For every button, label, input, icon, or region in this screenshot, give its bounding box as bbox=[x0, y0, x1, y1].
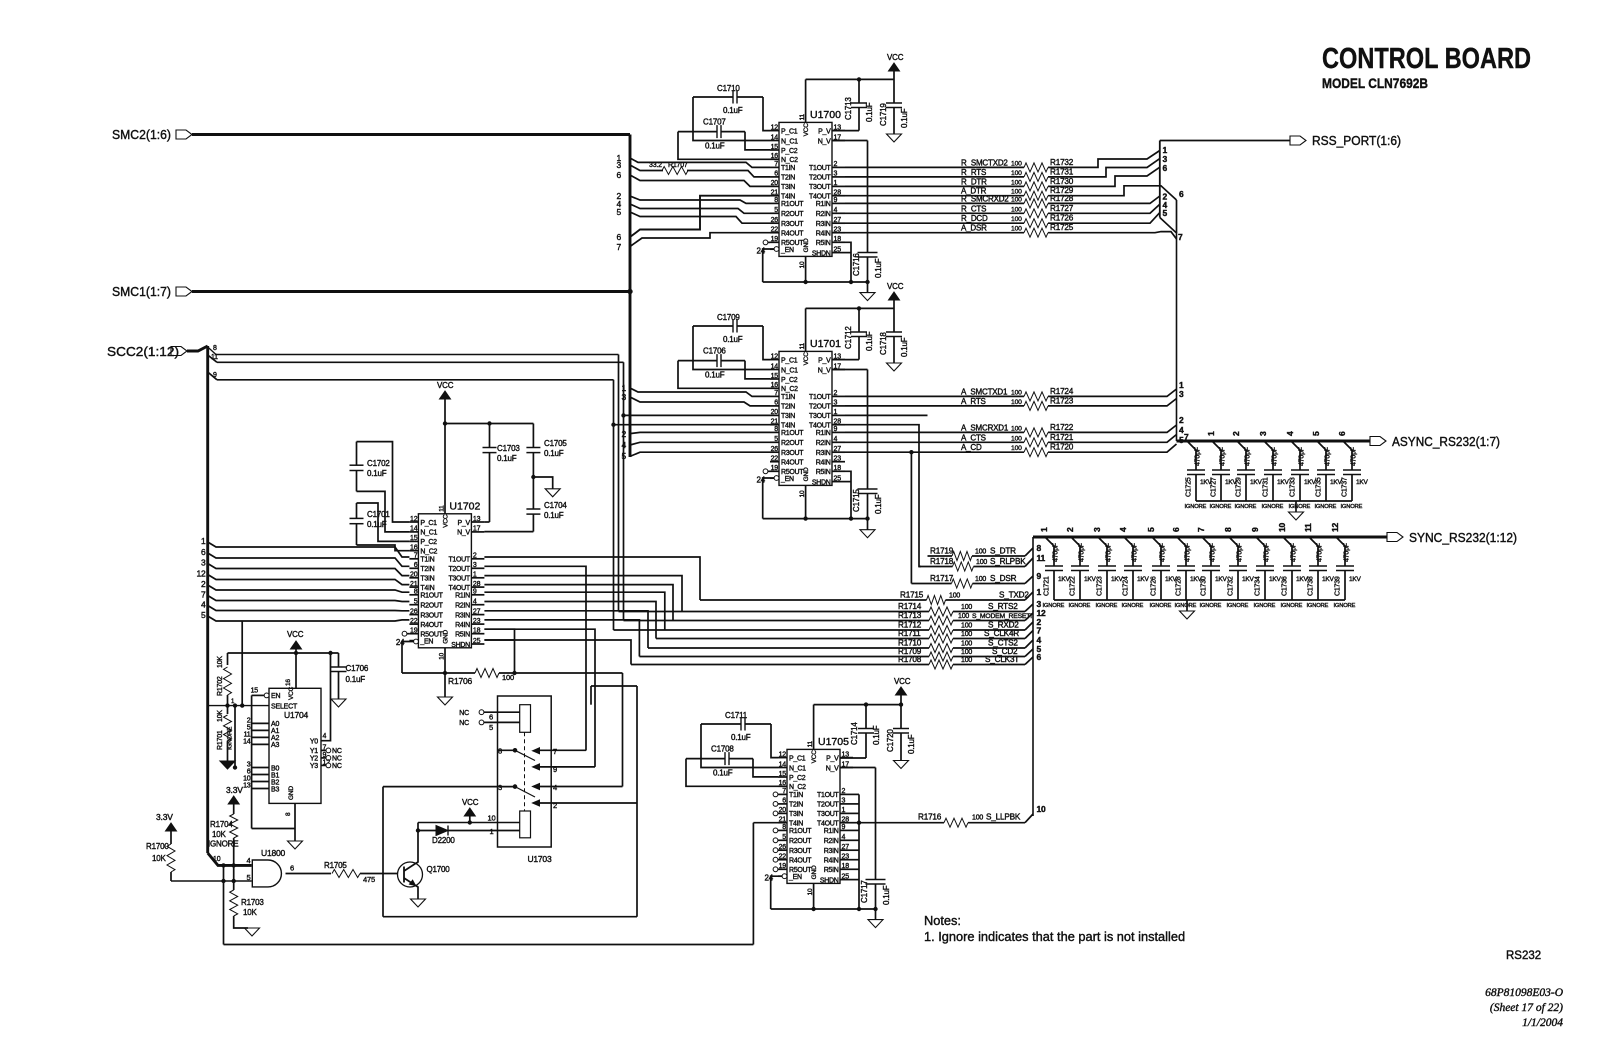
svg-text:0.1uF: 0.1uF bbox=[723, 106, 743, 115]
svg-text:6: 6 bbox=[489, 713, 493, 722]
svg-text:S_RLPBK: S_RLPBK bbox=[990, 557, 1026, 566]
svg-text:A_CD: A_CD bbox=[961, 443, 982, 452]
svg-text:11: 11 bbox=[1303, 523, 1313, 532]
wire SYNC connector stem bbox=[1032, 537, 1034, 816]
svg-text:470pF: 470pF bbox=[1344, 543, 1351, 562]
svg-text:15: 15 bbox=[771, 144, 779, 151]
svg-text:7: 7 bbox=[616, 242, 621, 252]
svg-text:N_V: N_V bbox=[818, 138, 831, 145]
svg-text:0.1uF: 0.1uF bbox=[865, 331, 874, 351]
svg-text:470pF: 470pF bbox=[1245, 447, 1252, 466]
ground below U1702 bbox=[444, 673, 446, 697]
svg-text:9: 9 bbox=[842, 824, 846, 831]
wire U1705 N_V bbox=[840, 767, 876, 769]
svg-text:T4OUT: T4OUT bbox=[809, 194, 831, 201]
wire SCC2 pin 8 net bbox=[216, 354, 619, 356]
wire net S_LLPBK bbox=[859, 822, 944, 824]
svg-text:9: 9 bbox=[834, 197, 838, 204]
svg-text:7: 7 bbox=[1196, 527, 1206, 532]
svg-text:12: 12 bbox=[779, 751, 787, 758]
svg-text:5: 5 bbox=[782, 834, 786, 841]
wire left bottom rail bbox=[223, 865, 225, 944]
svg-text:R1IN: R1IN bbox=[816, 201, 831, 208]
wire RSS to ASYNC bus vertical bbox=[1160, 218, 1177, 442]
svg-text:2: 2 bbox=[621, 429, 626, 439]
svg-text:P_V: P_V bbox=[818, 357, 831, 364]
svg-text:10: 10 bbox=[488, 814, 496, 823]
capacitor C1725 470pF bbox=[1187, 441, 1196, 470]
svg-text:0.1uF: 0.1uF bbox=[497, 454, 517, 463]
svg-text:7: 7 bbox=[1184, 432, 1189, 442]
resistor R1729 100 bbox=[1024, 191, 1048, 200]
svg-text:0.1uF: 0.1uF bbox=[346, 675, 366, 684]
svg-text:R_SMCRXD2: R_SMCRXD2 bbox=[961, 194, 1009, 203]
svg-text:10K: 10K bbox=[217, 710, 224, 722]
svg-text:16: 16 bbox=[410, 545, 418, 552]
svg-text:T4IN: T4IN bbox=[789, 821, 803, 828]
svg-text:R1713: R1713 bbox=[898, 611, 922, 620]
wire U1702 R1IN staircase bbox=[484, 592, 664, 630]
svg-text:IGNORE: IGNORE bbox=[1262, 504, 1284, 510]
svg-text:1: 1 bbox=[490, 827, 494, 836]
svg-text:IGNORE: IGNORE bbox=[1200, 603, 1222, 609]
svg-text:5: 5 bbox=[489, 723, 493, 732]
svg-text:VCC: VCC bbox=[887, 53, 904, 62]
svg-text:IGNORE: IGNORE bbox=[1341, 504, 1363, 510]
svg-text:9: 9 bbox=[473, 589, 477, 596]
svg-text:A_CTS: A_CTS bbox=[961, 433, 986, 442]
connector SYNC_RS232(1:12) bbox=[1033, 536, 1387, 539]
wire U1702 SHDN to S_CLK3T bbox=[484, 640, 631, 665]
svg-text:16: 16 bbox=[285, 679, 292, 686]
svg-text:EN: EN bbox=[271, 693, 280, 700]
svg-text:26: 26 bbox=[410, 608, 418, 615]
wire gate pin4 net bbox=[218, 864, 252, 866]
svg-text:C1733: C1733 bbox=[1290, 477, 1297, 497]
svg-text:3: 3 bbox=[834, 171, 838, 178]
svg-text:1: 1 bbox=[834, 180, 838, 187]
svg-text:T2IN: T2IN bbox=[781, 175, 795, 182]
wire SMC2/SMC1 vertical bus bbox=[629, 135, 632, 458]
svg-text:D2200: D2200 bbox=[432, 836, 455, 845]
svg-text:14: 14 bbox=[243, 739, 251, 746]
svg-text:S_DTR: S_DTR bbox=[990, 547, 1016, 556]
wire R_CTS to RSS pin 4 bbox=[1048, 204, 1160, 213]
svg-text:R_DCD: R_DCD bbox=[961, 214, 988, 223]
svg-text:C1703: C1703 bbox=[497, 444, 520, 453]
svg-text:R1701: R1701 bbox=[217, 730, 224, 750]
wire U1703 pin8 to switch bbox=[498, 749, 516, 751]
svg-text:GND: GND bbox=[811, 865, 818, 879]
svg-text:VCC: VCC bbox=[462, 798, 479, 807]
svg-text:C1729: C1729 bbox=[1236, 477, 1243, 497]
svg-text:GND: GND bbox=[442, 629, 449, 643]
svg-text:3: 3 bbox=[247, 762, 251, 769]
svg-text:8: 8 bbox=[285, 812, 292, 816]
wire U1705 bottom rail bbox=[771, 908, 876, 910]
svg-text:6: 6 bbox=[616, 232, 621, 242]
svg-text:C1734: C1734 bbox=[1255, 576, 1262, 596]
svg-text:2: 2 bbox=[1065, 527, 1075, 532]
svg-text:19: 19 bbox=[771, 236, 779, 243]
capacitor C1712 bbox=[858, 308, 860, 332]
svg-text:6: 6 bbox=[1163, 163, 1168, 173]
svg-text:470pF: 470pF bbox=[1291, 543, 1298, 562]
svg-text:2: 2 bbox=[842, 788, 846, 795]
svg-text:T1OUT: T1OUT bbox=[809, 165, 831, 172]
svg-text:R1727: R1727 bbox=[1050, 204, 1074, 213]
svg-text:C1712: C1712 bbox=[844, 326, 853, 349]
svg-text:0.1uF: 0.1uF bbox=[731, 733, 751, 742]
svg-text:R1722: R1722 bbox=[1050, 423, 1074, 432]
svg-text:68P81098E03-O: 68P81098E03-O bbox=[1485, 987, 1564, 999]
svg-text:6: 6 bbox=[782, 798, 786, 805]
svg-text:R1719: R1719 bbox=[930, 547, 954, 556]
svg-text:_EN: _EN bbox=[780, 247, 794, 254]
svg-text:5: 5 bbox=[616, 207, 621, 217]
wire R1700 to gate pin5 bbox=[171, 880, 252, 882]
svg-text:R1OUT: R1OUT bbox=[781, 201, 804, 208]
svg-text:R3OUT: R3OUT bbox=[781, 221, 804, 228]
svg-text:T2IN: T2IN bbox=[781, 404, 795, 411]
svg-text:3: 3 bbox=[1092, 527, 1102, 532]
svg-text:U1705: U1705 bbox=[818, 736, 849, 748]
ground below C1718 bbox=[887, 363, 902, 371]
svg-text:100: 100 bbox=[1011, 179, 1022, 186]
svg-text:6: 6 bbox=[290, 864, 294, 873]
svg-text:23: 23 bbox=[842, 854, 850, 861]
svg-text:5: 5 bbox=[247, 873, 251, 882]
wire SCC2 pin11 to U1701 T3IN bbox=[622, 414, 625, 417]
svg-text:P_C2: P_C2 bbox=[781, 148, 798, 155]
svg-text:R1IN: R1IN bbox=[455, 593, 470, 600]
wire U1701 R5IN SHDN loop bbox=[845, 471, 851, 518]
svg-text:0.1uF: 0.1uF bbox=[705, 371, 725, 380]
node U1705 input no-connects bbox=[773, 792, 778, 797]
ground below Q1700 bbox=[411, 899, 426, 907]
svg-text:100: 100 bbox=[975, 549, 986, 556]
wire U1703 pin7 bbox=[539, 749, 586, 751]
wire A_CTS to ASYNC pin 4 bbox=[1048, 435, 1177, 443]
svg-text:19: 19 bbox=[410, 628, 418, 635]
svg-text:S_CLK4R: S_CLK4R bbox=[984, 629, 1019, 638]
wire big box bottom bbox=[383, 916, 637, 918]
svg-text:470pF: 470pF bbox=[1325, 447, 1332, 466]
svg-text:1: 1 bbox=[1206, 431, 1216, 436]
svg-text:3: 3 bbox=[201, 558, 206, 568]
svg-text:A_DSR: A_DSR bbox=[961, 224, 987, 233]
svg-text:12: 12 bbox=[1330, 522, 1340, 532]
wire T4OUT row to S_RLPBK bbox=[845, 425, 921, 567]
svg-text:33.2: 33.2 bbox=[649, 162, 662, 169]
node U1700 R5OUT no-connect bbox=[763, 240, 768, 245]
svg-text:1: 1 bbox=[1039, 527, 1049, 532]
wire U1700 _EN loop bbox=[774, 247, 779, 252]
svg-text:C1723: C1723 bbox=[1097, 576, 1104, 596]
svg-text:T3IN: T3IN bbox=[789, 811, 803, 818]
wire SMC2 bus bbox=[192, 133, 630, 136]
svg-text:6: 6 bbox=[616, 170, 621, 180]
relay switch 1 bbox=[513, 749, 517, 753]
capacitor C1718 bbox=[886, 331, 902, 333]
svg-text:R1716: R1716 bbox=[918, 813, 942, 822]
svg-text:SHDN: SHDN bbox=[812, 479, 831, 486]
svg-text:100: 100 bbox=[1011, 206, 1022, 213]
svg-text:12: 12 bbox=[771, 353, 779, 360]
svg-text:100: 100 bbox=[961, 641, 972, 648]
svg-text:100: 100 bbox=[961, 657, 972, 664]
resistor R1722 100 bbox=[1024, 428, 1048, 437]
svg-text:0.1uF: 0.1uF bbox=[544, 511, 564, 520]
svg-text:0.1uF: 0.1uF bbox=[874, 494, 883, 514]
svg-text:1KV: 1KV bbox=[1242, 576, 1255, 583]
svg-text:VCC: VCC bbox=[288, 686, 295, 700]
svg-text:C1719: C1719 bbox=[879, 103, 888, 126]
svg-text:R1IN: R1IN bbox=[824, 828, 839, 835]
svg-text:IGNORE: IGNORE bbox=[1210, 504, 1232, 510]
wire R_RTS to RSS pin 3 bbox=[1048, 159, 1160, 177]
svg-text:U1701: U1701 bbox=[810, 338, 841, 350]
svg-text:8: 8 bbox=[774, 197, 778, 204]
svg-text:T4IN: T4IN bbox=[420, 585, 434, 592]
wire U1702 VCC rail bbox=[445, 423, 533, 425]
wire link 591-637 bbox=[591, 685, 637, 687]
svg-text:14: 14 bbox=[771, 134, 779, 141]
svg-text:4: 4 bbox=[473, 599, 477, 606]
svg-text:P_C2: P_C2 bbox=[781, 377, 798, 384]
wire U1705 output bus bbox=[858, 794, 860, 909]
svg-text:T2IN: T2IN bbox=[420, 566, 434, 573]
wire U1703 pin4 bbox=[539, 786, 623, 788]
svg-text:T2IN: T2IN bbox=[789, 802, 803, 809]
svg-text:U1703: U1703 bbox=[527, 854, 552, 864]
wire R_DCD to RSS pin 5 bbox=[1048, 213, 1160, 224]
svg-text:C1707: C1707 bbox=[703, 118, 726, 127]
capacitor C1720 bbox=[893, 728, 909, 730]
svg-text:0.1uF: 0.1uF bbox=[874, 258, 883, 278]
wire U1701 _EN loop bbox=[774, 476, 779, 481]
svg-text:R1717: R1717 bbox=[930, 574, 954, 583]
svg-text:470pF: 470pF bbox=[1220, 447, 1227, 466]
svg-text:470pF: 470pF bbox=[1132, 543, 1139, 562]
wire U1703 pin9 bbox=[539, 766, 595, 768]
svg-text:C1704: C1704 bbox=[544, 501, 567, 510]
svg-text:VCC: VCC bbox=[803, 352, 810, 366]
svg-text:11: 11 bbox=[1037, 553, 1046, 563]
svg-text:GND: GND bbox=[803, 467, 810, 481]
svg-text:R2IN: R2IN bbox=[455, 603, 470, 610]
wire SCC2 pin9 to U1701 T4IN bbox=[612, 423, 615, 426]
svg-text:8: 8 bbox=[782, 824, 786, 831]
svg-text:1KV: 1KV bbox=[1137, 576, 1150, 583]
svg-text:R4OUT: R4OUT bbox=[789, 858, 812, 865]
svg-text:0.1uF: 0.1uF bbox=[544, 449, 564, 458]
svg-text:R1703: R1703 bbox=[241, 898, 264, 907]
svg-text:R2IN: R2IN bbox=[816, 211, 831, 218]
svg-text:1: 1 bbox=[834, 409, 838, 416]
wire net A_CD bbox=[845, 451, 1024, 453]
diode D2200 bbox=[418, 830, 436, 832]
svg-text:T3IN: T3IN bbox=[420, 576, 434, 583]
svg-text:C1728: C1728 bbox=[1176, 576, 1183, 596]
svg-text:R3IN: R3IN bbox=[816, 221, 831, 228]
svg-text:5: 5 bbox=[774, 207, 778, 214]
svg-text:1/1/2004: 1/1/2004 bbox=[1522, 1017, 1563, 1029]
svg-text:7: 7 bbox=[782, 788, 786, 795]
svg-text:R1714: R1714 bbox=[898, 602, 922, 611]
svg-text:7: 7 bbox=[1178, 232, 1183, 242]
wire net A_SMCTXD1 bbox=[845, 395, 1024, 397]
svg-text:R1OUT: R1OUT bbox=[781, 430, 804, 437]
svg-text:VCC: VCC bbox=[887, 282, 904, 291]
svg-text:6: 6 bbox=[1171, 527, 1181, 532]
svg-text:13: 13 bbox=[473, 516, 481, 523]
svg-text:470pF: 470pF bbox=[1053, 543, 1060, 562]
wire net R_CTS bbox=[845, 212, 1024, 214]
svg-text:3: 3 bbox=[1179, 389, 1184, 399]
svg-text:0.1uF: 0.1uF bbox=[872, 725, 881, 745]
wire feeder to SELECT bbox=[241, 621, 243, 706]
svg-text:C1725: C1725 bbox=[1186, 477, 1193, 497]
ground ASYNC cap bank bbox=[1295, 501, 1297, 512]
wire net A_DTR bbox=[845, 195, 1024, 197]
svg-text:SELECT: SELECT bbox=[271, 704, 298, 711]
svg-text:2: 2 bbox=[201, 579, 206, 589]
svg-text:470pF: 470pF bbox=[1160, 543, 1167, 562]
wire SELECT from SCC2 bus bbox=[208, 705, 269, 707]
svg-text:7: 7 bbox=[774, 161, 778, 168]
svg-text:23: 23 bbox=[834, 227, 842, 234]
svg-text:1: 1 bbox=[842, 807, 846, 814]
svg-text:7: 7 bbox=[774, 390, 778, 397]
wire Q1700 emitter to ground bbox=[416, 886, 419, 900]
ground below R1703 bbox=[245, 928, 260, 936]
svg-text:GND: GND bbox=[803, 238, 810, 252]
wire U1700 GND stub bbox=[805, 256, 807, 282]
svg-text:B0: B0 bbox=[271, 765, 279, 772]
svg-text:470pF: 470pF bbox=[1351, 447, 1358, 466]
svg-text:25: 25 bbox=[834, 475, 842, 482]
svg-text:1KV: 1KV bbox=[1349, 576, 1362, 583]
svg-text:N_C2: N_C2 bbox=[420, 549, 437, 556]
svg-text:IGNORE: IGNORE bbox=[1334, 603, 1356, 609]
svg-text:C1730: C1730 bbox=[1201, 576, 1208, 596]
svg-text:C1708: C1708 bbox=[711, 745, 734, 754]
resistor R1724 100 bbox=[1024, 392, 1048, 401]
svg-text:4: 4 bbox=[247, 856, 251, 865]
svg-text:R2OUT: R2OUT bbox=[781, 440, 804, 447]
svg-text:Y0: Y0 bbox=[310, 739, 318, 746]
wire net R_DCD bbox=[845, 222, 1024, 224]
svg-text:3.3V: 3.3V bbox=[226, 785, 243, 795]
resistor R1726 100 bbox=[1024, 219, 1048, 228]
svg-text:C1705: C1705 bbox=[544, 439, 567, 448]
svg-text:22: 22 bbox=[779, 854, 787, 861]
wire U1702 R5IN SHDN loop bbox=[484, 629, 514, 673]
svg-text:4: 4 bbox=[553, 783, 557, 792]
ground right of C1705 bbox=[532, 475, 535, 478]
svg-text:N_C2: N_C2 bbox=[789, 784, 806, 791]
ground below C1720 bbox=[894, 761, 909, 769]
svg-text:5: 5 bbox=[774, 436, 778, 443]
svg-text:15: 15 bbox=[779, 771, 787, 778]
wire net R_SMCTXD2 bbox=[845, 166, 1024, 168]
svg-text:22: 22 bbox=[410, 618, 418, 625]
svg-text:N_V: N_V bbox=[826, 765, 839, 772]
svg-text:B2: B2 bbox=[271, 779, 279, 786]
svg-text:T2OUT: T2OUT bbox=[448, 566, 470, 573]
svg-text:A_SMCTXD1: A_SMCTXD1 bbox=[961, 387, 1008, 396]
wire SCC2 bus bbox=[187, 346, 208, 351]
svg-text:VCC: VCC bbox=[894, 677, 911, 686]
node U1701 R5OUT no-connect bbox=[763, 469, 768, 474]
svg-text:16: 16 bbox=[771, 382, 779, 389]
svg-text:IGNORE: IGNORE bbox=[1315, 504, 1337, 510]
resistor R1730 100 bbox=[1024, 182, 1048, 191]
svg-text:1KV: 1KV bbox=[1215, 576, 1228, 583]
svg-text:R2OUT: R2OUT bbox=[789, 838, 812, 845]
capacitor C1719 bbox=[886, 102, 902, 104]
svg-text:25: 25 bbox=[473, 638, 481, 645]
svg-text:100: 100 bbox=[961, 623, 972, 630]
relay coil bottom bbox=[520, 811, 531, 838]
op-amp U1702 RS232 transceiver bbox=[418, 514, 471, 648]
wire net R_DTR bbox=[845, 185, 1024, 187]
svg-text:0.1uF: 0.1uF bbox=[865, 102, 874, 122]
svg-text:24: 24 bbox=[757, 247, 766, 256]
wire net A_SMCRXD1 bbox=[845, 431, 1024, 433]
svg-text:11: 11 bbox=[244, 732, 251, 739]
svg-text:T4OUT: T4OUT bbox=[809, 423, 831, 430]
svg-text:470pF: 470pF bbox=[1185, 543, 1192, 562]
svg-text:IGNORE: IGNORE bbox=[1043, 603, 1065, 609]
resistor R1727 100 bbox=[1024, 209, 1048, 218]
svg-text:10K: 10K bbox=[217, 656, 224, 668]
svg-text:T1OUT: T1OUT bbox=[817, 792, 839, 799]
svg-text:MODEL CLN7692B: MODEL CLN7692B bbox=[1322, 76, 1428, 91]
wire U1705 VCC rail bbox=[813, 705, 815, 750]
svg-text:6: 6 bbox=[1179, 189, 1184, 199]
wire U1702 GND stub bbox=[444, 648, 446, 673]
relay coil top bbox=[520, 705, 531, 733]
svg-text:T4IN: T4IN bbox=[781, 194, 795, 201]
svg-text:100: 100 bbox=[1011, 435, 1022, 442]
svg-text:25: 25 bbox=[834, 246, 842, 253]
svg-text:0.1uF: 0.1uF bbox=[900, 108, 909, 128]
wire T3OUT row to S_DTR bbox=[845, 414, 928, 416]
svg-text:100: 100 bbox=[1011, 445, 1022, 452]
ground below U1700 bbox=[867, 282, 869, 293]
svg-text:R1715: R1715 bbox=[900, 591, 924, 600]
svg-text:R1723: R1723 bbox=[1050, 396, 1074, 405]
wire U1702 _EN loop bbox=[414, 639, 419, 644]
svg-text:IGNORE: IGNORE bbox=[1227, 603, 1249, 609]
relay dashed actuator bbox=[524, 732, 526, 811]
wire SYNC cap bank rail bbox=[1054, 599, 1345, 601]
svg-text:1KV: 1KV bbox=[1322, 576, 1335, 583]
svg-text:R5IN: R5IN bbox=[455, 632, 470, 639]
resistor R1728 100 bbox=[1024, 199, 1048, 208]
svg-text:S_CLK3T: S_CLK3T bbox=[985, 655, 1019, 664]
svg-text:R1IN: R1IN bbox=[816, 430, 831, 437]
svg-text:100: 100 bbox=[1011, 226, 1022, 233]
svg-text:10K: 10K bbox=[212, 830, 226, 839]
svg-text:B3: B3 bbox=[271, 786, 279, 793]
resistor R1723 100 bbox=[1024, 401, 1048, 410]
svg-text:20: 20 bbox=[771, 180, 779, 187]
svg-text:C1714: C1714 bbox=[850, 722, 859, 745]
svg-text:2: 2 bbox=[473, 553, 477, 560]
